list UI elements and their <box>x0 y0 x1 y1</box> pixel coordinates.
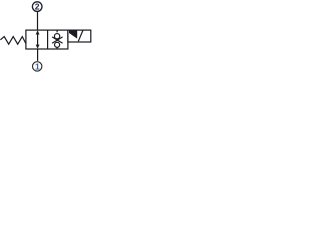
port circle 2 <box>32 2 42 12</box>
check ball upper <box>54 34 59 39</box>
solenoid armature black wedge <box>69 30 77 38</box>
check valve seat X (closed position) <box>52 37 63 43</box>
position divider line <box>47 30 49 49</box>
port circle 1 <box>33 62 42 71</box>
wire check top line <box>56 30 58 32</box>
wire check bottom line <box>56 47 58 49</box>
wire port 1 line <box>37 49 39 61</box>
check ball lower <box>55 42 60 47</box>
wire port 2 line <box>37 12 39 30</box>
spring <box>0 37 26 45</box>
svg-text:1: 1 <box>35 62 40 72</box>
flow path double arrow (open position) <box>36 30 40 49</box>
svg-text:2: 2 <box>35 2 40 12</box>
valve body envelope <box>26 30 68 49</box>
solenoid box <box>68 30 91 42</box>
solenoid diagonal slash <box>78 30 83 41</box>
